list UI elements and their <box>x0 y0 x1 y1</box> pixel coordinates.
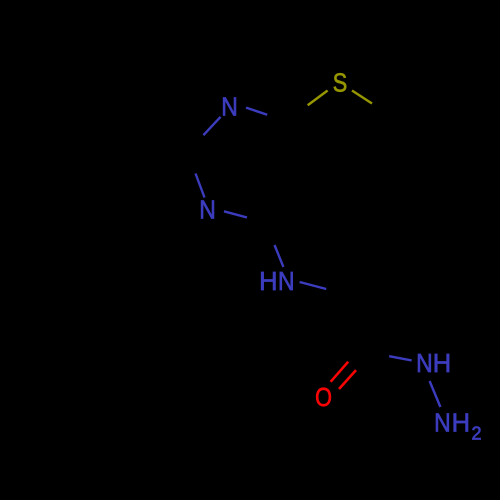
svg-text:N: N <box>416 350 433 378</box>
svg-text:S: S <box>333 70 347 98</box>
svg-text:2: 2 <box>471 424 481 444</box>
svg-text:O: O <box>315 385 332 413</box>
svg-text:H: H <box>452 409 470 437</box>
svg-text:N: N <box>434 409 451 437</box>
svg-text:N: N <box>278 268 295 296</box>
svg-text:N: N <box>199 197 216 225</box>
svg-text:N: N <box>221 94 238 122</box>
svg-text:H: H <box>259 268 277 296</box>
svg-text:H: H <box>433 350 451 378</box>
